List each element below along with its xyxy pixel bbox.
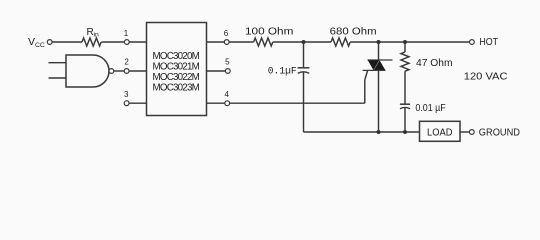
nand gate output bubble xyxy=(109,69,114,74)
nand gate input stub top xyxy=(49,62,67,64)
wire pin 1 to IC xyxy=(129,41,146,43)
resistor Rin xyxy=(82,38,101,46)
wire gate to pin 4 xyxy=(230,102,365,104)
resistor 47 Ohm vertical zigzag xyxy=(401,52,409,71)
triac gate diagonal xyxy=(365,70,368,80)
pin 6 xyxy=(224,40,229,45)
triac bottom lead xyxy=(378,70,380,132)
resistor 47 Ohm lead top xyxy=(404,42,406,52)
resistor 680 Ohm xyxy=(331,38,350,46)
svg-text:MOC3021M: MOC3021M xyxy=(153,62,200,73)
node junction triac xyxy=(377,40,381,44)
node junction 47 Ohm xyxy=(403,40,407,44)
label 120 VAC xyxy=(464,71,508,83)
svg-text:V: V xyxy=(28,36,35,48)
svg-text:MOC3023M: MOC3023M xyxy=(153,83,200,94)
wire pin 6 to R 100 xyxy=(229,41,254,43)
wire 47 Ohm to cap xyxy=(404,71,406,104)
triac Q1 top lead xyxy=(378,42,380,60)
capacitor C1 plates xyxy=(298,67,310,69)
svg-text:in: in xyxy=(94,32,100,39)
svg-text:GROUND: GROUND xyxy=(479,128,520,139)
pin 2 xyxy=(124,69,129,74)
LOAD box xyxy=(420,121,461,141)
label 0.1uF xyxy=(268,67,297,78)
pin 1 xyxy=(124,40,129,45)
svg-text:LOAD: LOAD xyxy=(427,128,453,139)
pin 3 xyxy=(124,101,129,106)
op-amp U1 MOC302xM box xyxy=(147,23,207,116)
svg-text:2: 2 xyxy=(124,57,129,66)
resistor 100 Ohm xyxy=(254,38,273,46)
svg-text:100 Ohm: 100 Ohm xyxy=(245,25,294,37)
wire bottom rail xyxy=(304,131,420,133)
svg-text:47 Ohm: 47 Ohm xyxy=(416,57,453,69)
svg-text:0.1µF: 0.1µF xyxy=(268,67,297,78)
node junction triac bottom xyxy=(377,130,381,134)
terminal GROUND xyxy=(469,130,474,135)
svg-text:1: 1 xyxy=(124,29,129,38)
capacitor C1 0.1uF lead top xyxy=(303,42,305,67)
pin 5 xyxy=(225,69,230,74)
label 0.01 uF xyxy=(415,103,445,114)
triac top bar xyxy=(368,59,393,61)
wire R680 to HOT xyxy=(350,41,469,43)
wire IC to pin 4 xyxy=(207,102,225,104)
wire R100 to R680 with node xyxy=(273,41,331,43)
pin 4 xyxy=(225,101,230,106)
wire bubble to pin 2 xyxy=(114,70,124,72)
wire pin 3 to IC xyxy=(129,102,147,104)
svg-text:3: 3 xyxy=(124,90,129,99)
svg-text:120 VAC: 120 VAC xyxy=(464,71,508,83)
wire Rin to pin 1 xyxy=(102,41,125,43)
svg-text:5: 5 xyxy=(225,57,230,66)
nand gate U2 body xyxy=(66,55,109,87)
svg-text:680 Ohm: 680 Ohm xyxy=(330,26,377,38)
node junction cap bottom xyxy=(403,130,407,134)
capacitor C2 lead bottom xyxy=(404,108,406,132)
svg-text:MOC3020M: MOC3020M xyxy=(153,51,200,62)
svg-text:HOT: HOT xyxy=(479,37,498,48)
capacitor C2 0.01uF plates xyxy=(400,103,410,105)
triac bottom bar xyxy=(363,69,386,71)
wire IC to pin 5 xyxy=(207,70,226,72)
svg-text:4: 4 xyxy=(224,90,229,99)
svg-text:MOC3022M: MOC3022M xyxy=(153,72,200,83)
wire pin 2 to IC xyxy=(129,70,147,72)
wire IC to pin 6 xyxy=(207,41,225,43)
svg-text:CC: CC xyxy=(35,42,45,49)
capacitor C1 lead bottom xyxy=(303,72,305,132)
terminal Vcc xyxy=(47,40,52,45)
triac left triangle xyxy=(368,60,379,70)
nand gate input stub bottom xyxy=(49,77,67,79)
wire LOAD to GROUND xyxy=(460,131,469,133)
svg-text:0.01 µF: 0.01 µF xyxy=(415,103,445,114)
node junction 0.1uF tap xyxy=(302,40,306,44)
label Rin xyxy=(87,27,100,39)
svg-text:6: 6 xyxy=(224,29,229,38)
triac right triangle xyxy=(374,60,386,70)
triac gate vertical xyxy=(364,80,366,103)
node Vcc label xyxy=(28,36,45,49)
terminal HOT xyxy=(470,40,475,45)
wire Vcc to Rin xyxy=(52,41,82,43)
